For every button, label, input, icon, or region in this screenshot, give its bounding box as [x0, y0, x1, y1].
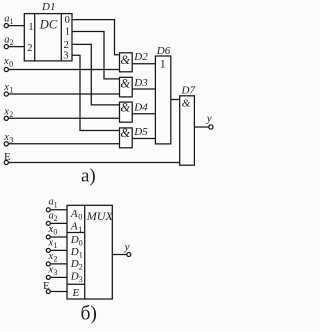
svg-text:1: 1	[65, 26, 70, 37]
wire decoder out1 to D3	[72, 32, 120, 79]
svg-text:2: 2	[54, 214, 58, 223]
svg-text:E: E	[43, 280, 50, 292]
pin label D0	[70, 234, 83, 248]
label y output b	[124, 241, 130, 253]
svg-text:A: A	[70, 208, 78, 220]
wire decoder out3 to D5	[72, 55, 120, 130]
svg-text:x: x	[3, 132, 9, 143]
pin number 2	[27, 43, 32, 54]
wire b x0	[50, 236, 67, 238]
svg-text:0: 0	[78, 213, 82, 222]
label E	[4, 151, 11, 163]
svg-text:D: D	[70, 270, 79, 282]
svg-text:3: 3	[63, 50, 68, 61]
wire D4 out	[132, 113, 155, 115]
wire x1 to D3	[8, 93, 119, 95]
pin label E	[72, 287, 80, 299]
svg-text:x: x	[3, 56, 9, 67]
svg-text:0: 0	[65, 15, 70, 26]
pin label D3	[70, 270, 83, 284]
wire x0 to D2	[8, 69, 119, 71]
label b x3	[48, 264, 58, 277]
terminal y output b	[127, 253, 131, 257]
wire b a1	[50, 209, 67, 211]
label b x1	[48, 237, 58, 250]
svg-text:D2: D2	[133, 51, 148, 63]
svg-text:D7: D7	[181, 84, 196, 96]
svg-text:x: x	[3, 107, 9, 118]
label D6	[156, 45, 171, 57]
caption a	[81, 166, 96, 187]
wire decoder out0 to D2	[72, 20, 120, 55]
and gate D5 box	[120, 128, 133, 148]
terminal b x0	[46, 235, 50, 239]
wire D5 out	[132, 138, 155, 140]
label x2	[3, 107, 13, 120]
terminal E	[4, 160, 8, 164]
svg-text:x: x	[3, 82, 9, 93]
decoder D1 box	[24, 14, 72, 61]
terminal b x1	[46, 248, 50, 252]
label b E	[43, 280, 50, 292]
label D2	[133, 51, 148, 63]
wire x3 to D5	[8, 143, 119, 145]
label D1	[41, 1, 55, 13]
label x0	[3, 56, 13, 69]
svg-text:&: &	[120, 126, 130, 140]
terminal y output a	[209, 125, 213, 129]
svg-text:1: 1	[28, 22, 33, 33]
svg-text:D6: D6	[156, 45, 171, 57]
svg-text:3: 3	[79, 275, 83, 284]
wire b x1	[50, 249, 67, 251]
svg-text:1: 1	[78, 225, 82, 234]
svg-text:1: 1	[53, 241, 57, 250]
label x1	[3, 82, 13, 95]
label D4	[133, 101, 148, 113]
and gate D2 box	[120, 53, 133, 72]
svg-text:1: 1	[160, 56, 166, 70]
svg-text:&: &	[182, 98, 191, 110]
terminal x3	[4, 142, 8, 146]
terminal b a2	[46, 221, 50, 225]
svg-text:3: 3	[9, 135, 13, 144]
amp symbol D7	[182, 98, 191, 110]
svg-text:D: D	[70, 246, 79, 258]
svg-text:0: 0	[79, 239, 83, 248]
svg-text:&: &	[120, 53, 130, 67]
amp symbol D4	[120, 101, 130, 115]
svg-text:y: y	[124, 241, 130, 253]
wire E to D7	[8, 162, 179, 164]
svg-text:0: 0	[9, 60, 13, 69]
label D5	[133, 126, 148, 138]
svg-text:1: 1	[10, 17, 14, 26]
wire D7 out to y	[194, 126, 208, 128]
svg-text:0: 0	[53, 228, 57, 237]
svg-text:DC: DC	[39, 17, 58, 31]
wire a1 to decoder	[8, 25, 24, 27]
and gate D3 box	[120, 77, 133, 97]
pin number out3	[63, 50, 68, 61]
label b a2	[49, 210, 58, 223]
svg-text:A: A	[70, 221, 78, 233]
wire b E	[50, 291, 67, 293]
svg-text:E: E	[4, 151, 11, 163]
label DC	[39, 17, 58, 31]
svg-text:2: 2	[53, 254, 57, 263]
pin label A1	[70, 221, 82, 235]
label b x2	[48, 251, 58, 264]
or symbol 1	[160, 56, 166, 70]
pin number out1	[65, 26, 70, 37]
terminal b E	[46, 290, 50, 294]
svg-text:E: E	[72, 287, 80, 299]
svg-text:&: &	[120, 101, 130, 115]
svg-text:2: 2	[9, 110, 13, 119]
label b a1	[49, 197, 58, 210]
wire decoder out2 to D4	[72, 44, 120, 105]
caption b	[81, 303, 97, 324]
svg-text:2: 2	[79, 263, 83, 272]
svg-text:D: D	[70, 234, 79, 246]
terminal b x2	[46, 262, 50, 266]
wire x2 to D4	[8, 117, 119, 119]
terminal x2	[4, 116, 8, 120]
mux box	[67, 205, 112, 299]
wire b a2	[50, 222, 67, 224]
wire D2 out	[132, 63, 155, 65]
svg-text:y: y	[206, 113, 212, 125]
label D3	[133, 77, 148, 89]
svg-text:D: D	[70, 258, 79, 270]
amp symbol D3	[120, 77, 130, 91]
and gate D4 box	[120, 102, 133, 122]
label b x0	[48, 224, 58, 237]
pin label D2	[70, 258, 83, 272]
terminal b x3	[46, 275, 50, 279]
terminal b a1	[46, 208, 50, 212]
pin label A0	[70, 208, 82, 222]
svg-text:MUX: MUX	[86, 209, 114, 223]
terminal a2	[4, 45, 8, 49]
svg-text:2: 2	[27, 43, 32, 54]
amp symbol D5	[120, 126, 130, 140]
amp symbol D2	[120, 53, 130, 67]
terminal a1	[4, 24, 8, 28]
wire D3 out	[132, 88, 155, 90]
svg-text:D1: D1	[41, 1, 55, 13]
svg-text:2: 2	[10, 38, 14, 47]
svg-text:1: 1	[54, 200, 58, 209]
wire b x2	[50, 263, 67, 265]
wire D6 out to D7	[171, 99, 180, 101]
svg-text:а): а)	[81, 166, 96, 187]
terminal x0	[4, 67, 8, 71]
svg-text:&: &	[120, 77, 130, 91]
svg-text:3: 3	[53, 268, 57, 277]
svg-text:1: 1	[9, 85, 13, 94]
svg-text:D3: D3	[133, 77, 148, 89]
svg-text:D5: D5	[133, 126, 148, 138]
svg-text:1: 1	[79, 251, 83, 260]
pin number out0	[65, 15, 70, 26]
terminal x1	[4, 92, 8, 96]
label MUX	[86, 209, 114, 223]
label D7	[181, 84, 196, 96]
wire a2 to decoder	[8, 46, 24, 48]
label a2	[4, 35, 13, 48]
label y output a	[206, 113, 212, 125]
wire b x3	[50, 276, 67, 278]
pin number 1	[28, 22, 33, 33]
pin number out2	[64, 40, 69, 51]
pin label D1	[70, 246, 83, 260]
svg-text:б): б)	[81, 303, 97, 324]
label x3	[3, 132, 13, 145]
svg-text:D4: D4	[133, 101, 148, 113]
or gate D6 box	[155, 56, 170, 144]
label a1	[4, 14, 13, 27]
wire mux out to y	[112, 254, 127, 256]
and gate D7 box	[180, 96, 195, 165]
